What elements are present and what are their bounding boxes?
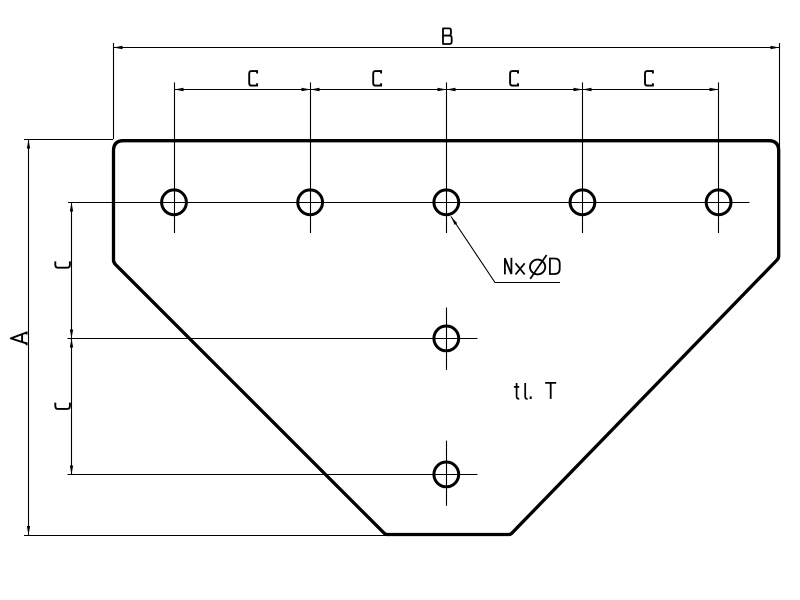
dimension A arrow top bbox=[27, 140, 30, 149]
centerline H4 vertical bbox=[582, 83, 584, 234]
hole H5 bbox=[706, 190, 731, 215]
label C4 bbox=[645, 71, 653, 86]
dim C arrows at H1 bbox=[175, 88, 184, 91]
dimension B arrow left bbox=[114, 46, 123, 49]
dimension A arrow bottom bbox=[27, 526, 30, 535]
label C3 bbox=[510, 71, 518, 86]
hole H6 (middle) bbox=[434, 326, 459, 351]
label NxOD letter O-slash bbox=[530, 260, 545, 275]
hole H3 bbox=[434, 190, 459, 215]
leader arrow bbox=[451, 217, 457, 225]
dimension B arrow right bbox=[771, 46, 780, 49]
centerline H7 vertical bbox=[446, 441, 448, 506]
label tl. T letter t bbox=[514, 383, 519, 399]
label NxOD letter x bbox=[516, 263, 525, 274]
centerline top row horizontal bbox=[68, 202, 750, 204]
hole H2 bbox=[298, 190, 323, 215]
dim C left arrow at row1 bbox=[70, 203, 73, 212]
dimension B line bbox=[114, 47, 780, 49]
label NxOD letter D bbox=[550, 259, 560, 275]
label C1 bbox=[249, 71, 257, 86]
dimension B extension line left bbox=[113, 43, 115, 139]
dim C arrows at H3 bbox=[438, 88, 447, 91]
leader line to H3 bbox=[451, 217, 560, 283]
dimension A extension top bbox=[24, 139, 113, 141]
centerline H2 vertical bbox=[310, 83, 312, 234]
dim C arrows at H2 bbox=[302, 88, 311, 91]
dim C arrows at H4 bbox=[574, 88, 583, 91]
dimension A extension bottom bbox=[24, 535, 387, 537]
plate outline bbox=[114, 141, 779, 535]
label C left 1 (rotated) bbox=[55, 261, 70, 267]
label NxOD letter N bbox=[505, 258, 512, 275]
dimension A line bbox=[28, 140, 30, 536]
label tl. T letter l bbox=[525, 383, 527, 399]
label tl. T period bbox=[530, 396, 532, 399]
centerline H6 vertical bbox=[446, 308, 448, 371]
centerline H1 vertical bbox=[174, 83, 176, 234]
centerline H6 horizontal bbox=[68, 338, 478, 340]
hole H4 bbox=[570, 190, 595, 215]
dim C arrow at H5 bbox=[710, 88, 719, 91]
centerline H7 horizontal bbox=[68, 474, 478, 476]
dim C left arrow at row3 bbox=[70, 466, 73, 475]
dimension B extension line right bbox=[779, 43, 781, 149]
dim C left arrows at row2 bbox=[70, 330, 73, 339]
dimension C left line bbox=[71, 203, 73, 475]
label B bbox=[443, 28, 452, 44]
label A (rotated) bbox=[11, 332, 27, 346]
hole H1 bbox=[162, 190, 187, 215]
label C2 bbox=[373, 71, 381, 86]
label C left 2 (rotated) bbox=[55, 403, 70, 409]
centerline H5 vertical bbox=[718, 83, 720, 234]
label tl. T letter T bbox=[545, 383, 556, 399]
centerline H3 vertical bbox=[446, 83, 448, 234]
hole H7 (bottom) bbox=[434, 462, 459, 487]
dimension C top line bbox=[175, 89, 719, 91]
